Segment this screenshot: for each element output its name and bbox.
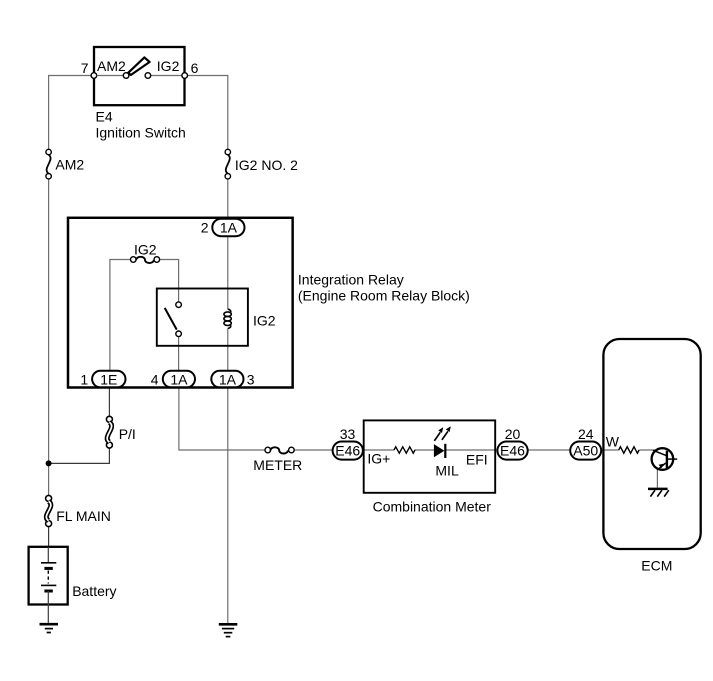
- svg-text:P/I: P/I: [119, 426, 136, 442]
- wire: [227, 178, 229, 220]
- switch lever: [128, 57, 149, 75]
- ground (battery): [40, 624, 59, 632]
- wire: [160, 260, 179, 303]
- switch contact IG2: [145, 73, 151, 79]
- wire: [227, 387, 229, 623]
- wire: [49, 76, 92, 150]
- svg-text:7: 7: [81, 60, 89, 76]
- ignition switch box E4: [94, 47, 185, 105]
- svg-text:(Engine Room Relay Block): (Engine Room Relay Block): [298, 287, 470, 303]
- fusible link P/I: [106, 416, 135, 448]
- wire: [110, 260, 130, 372]
- terminal 7: [91, 73, 97, 79]
- svg-text:1A: 1A: [220, 219, 238, 235]
- connector 24 A50: [570, 426, 601, 460]
- wire: [528, 449, 571, 451]
- relay switch lever: [165, 308, 177, 330]
- wire: [227, 328, 229, 371]
- wire: [294, 449, 333, 451]
- fusible link FL MAIN: [46, 495, 111, 526]
- combination meter box: [364, 420, 496, 492]
- ECM box: [603, 339, 700, 549]
- switch pivot contact: [123, 73, 129, 79]
- wire: [48, 526, 50, 547]
- svg-text:AM2: AM2: [97, 58, 126, 74]
- svg-text:4: 4: [151, 371, 159, 387]
- svg-text:1A: 1A: [219, 371, 237, 387]
- svg-text:24: 24: [578, 426, 594, 442]
- fuse IG2 NO. 2: [225, 149, 298, 179]
- relay coil IG2: [228, 309, 231, 312]
- resistor (ECM): [619, 447, 639, 453]
- svg-text:IG2: IG2: [253, 312, 276, 328]
- battery: [29, 547, 117, 623]
- transistor Q: [652, 448, 678, 470]
- svg-text:1A: 1A: [170, 371, 188, 387]
- svg-text:W: W: [606, 433, 620, 449]
- svg-text:1: 1: [80, 371, 88, 387]
- wire: [227, 236, 229, 310]
- wire: [415, 449, 435, 451]
- ground (relay output): [219, 624, 238, 636]
- chassis ground (ECM): [648, 489, 669, 497]
- integration relay box border (over ovals): [68, 218, 293, 388]
- svg-text:IG2: IG2: [157, 58, 180, 74]
- wire: [364, 449, 394, 451]
- svg-text:E46: E46: [500, 443, 525, 459]
- svg-text:EFI: EFI: [466, 451, 488, 467]
- wire: [446, 449, 498, 451]
- svg-text:20: 20: [505, 426, 521, 442]
- svg-text:1E: 1E: [100, 371, 117, 387]
- wire: [151, 75, 182, 77]
- node junction: [46, 460, 52, 466]
- connector 1 1E: [80, 371, 125, 388]
- svg-text:Integration Relay: Integration Relay: [298, 271, 404, 287]
- svg-text:Battery: Battery: [72, 583, 116, 599]
- fuse AM2: [46, 149, 85, 179]
- svg-text:Combination Meter: Combination Meter: [373, 499, 492, 515]
- svg-text:33: 33: [340, 426, 356, 442]
- connector 1A 3: [211, 371, 254, 388]
- relay switch contact top: [176, 302, 182, 308]
- terminal 6: [182, 73, 188, 79]
- wire: [178, 337, 180, 372]
- wire: [97, 75, 124, 77]
- wire: [49, 448, 110, 463]
- wire: [639, 449, 656, 451]
- connector 4 1A: [151, 371, 195, 388]
- connector 20 E46: [497, 426, 527, 460]
- svg-text:IG2: IG2: [134, 241, 157, 257]
- fuse METER: [253, 447, 302, 473]
- wire: [48, 179, 50, 496]
- fuse IG2 (relay block): [131, 241, 160, 263]
- svg-text:AM2: AM2: [55, 157, 84, 173]
- wire: [187, 76, 227, 150]
- wire: [600, 449, 619, 451]
- LED MIL: [434, 426, 459, 478]
- svg-text:E46: E46: [335, 443, 360, 459]
- svg-text:IG2 NO. 2: IG2 NO. 2: [235, 157, 298, 173]
- connector 33 E46: [333, 426, 363, 460]
- integration relay outer box: [68, 218, 293, 388]
- svg-text:E4: E4: [96, 109, 113, 125]
- svg-text:IG+: IG+: [367, 450, 390, 466]
- svg-text:ECM: ECM: [641, 558, 672, 574]
- connector 2 1A: [201, 219, 245, 237]
- svg-text:MIL: MIL: [435, 462, 459, 478]
- svg-text:A50: A50: [573, 443, 598, 459]
- svg-text:6: 6: [191, 60, 199, 76]
- svg-text:Ignition Switch: Ignition Switch: [96, 125, 186, 141]
- resistor (meter): [394, 447, 415, 453]
- svg-text:METER: METER: [253, 457, 302, 473]
- wire: [656, 469, 658, 488]
- svg-text:2: 2: [201, 219, 209, 235]
- wire: [108, 387, 110, 417]
- relay switch contact bottom: [176, 331, 182, 337]
- svg-text:3: 3: [247, 371, 255, 387]
- wire: [179, 387, 265, 450]
- svg-text:FL MAIN: FL MAIN: [56, 508, 111, 524]
- relay inner box: [157, 289, 248, 346]
